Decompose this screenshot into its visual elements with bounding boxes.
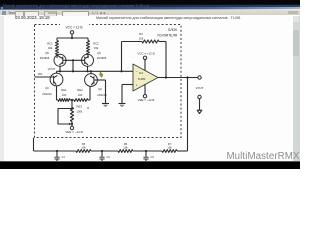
svg-text:TL081: TL081 xyxy=(138,77,146,81)
svg-text:2N3906: 2N3906 xyxy=(97,56,107,60)
svg-text:R​E3: R​E3 xyxy=(77,105,83,109)
svg-text:2N2222: 2N2222 xyxy=(42,92,52,96)
svg-text:100k: 100k xyxy=(77,110,83,114)
svg-text:R​E1: R​E1 xyxy=(61,88,67,92)
svg-text:R​E2: R​E2 xyxy=(77,88,83,92)
svg-text:V​CC = +12 В: V​CC = +12 В xyxy=(137,51,154,55)
svg-text:+: + xyxy=(136,84,138,88)
svg-text:V​EE = −12 В: V​EE = −12 В xyxy=(138,98,155,102)
svg-text:10k: 10k xyxy=(139,36,144,40)
svg-text:R​C2: R​C2 xyxy=(93,42,99,46)
svg-text:Q​2: Q​2 xyxy=(98,87,102,91)
svg-text:R​6: R​6 xyxy=(124,142,128,146)
svg-text:Q​1: Q​1 xyxy=(45,86,49,90)
svg-text:V​IN: V​IN xyxy=(38,72,43,76)
svg-text:10k: 10k xyxy=(123,146,128,150)
svg-text:R​2: R​2 xyxy=(139,32,143,36)
svg-text:V​OUT: V​OUT xyxy=(48,67,56,71)
svg-text:R​C1: R​C1 xyxy=(47,42,53,46)
svg-text:2N3906: 2N3906 xyxy=(40,56,50,60)
svg-text:V​EE = −12 В: V​EE = −12 В xyxy=(65,130,82,134)
svg-text:V​OUT: V​OUT xyxy=(196,86,204,90)
svg-text:Q​6: Q​6 xyxy=(97,51,101,55)
svg-text:R​7: R​7 xyxy=(168,142,172,146)
svg-text:I​3: I​3 xyxy=(87,107,90,110)
svg-text:100: 100 xyxy=(78,93,83,97)
svg-text:100: 100 xyxy=(62,93,67,97)
svg-text:33k: 33k xyxy=(94,46,99,50)
svg-text:33k: 33k xyxy=(48,46,53,50)
svg-text:Q​5: Q​5 xyxy=(45,51,49,55)
svg-text:10k: 10k xyxy=(167,146,172,150)
svg-text:УСИЛИТЕЛЯ: УСИЛИТЕЛЯ xyxy=(157,34,178,38)
svg-text:10k: 10k xyxy=(81,146,86,150)
svg-text:−: − xyxy=(136,70,138,74)
svg-text:БЛОК: БЛОК xyxy=(168,28,177,32)
svg-text:R​5: R​5 xyxy=(82,142,86,146)
svg-text:IC​1: IC​1 xyxy=(139,71,144,75)
svg-text:V​CC = 12 В: V​CC = 12 В xyxy=(66,26,83,30)
